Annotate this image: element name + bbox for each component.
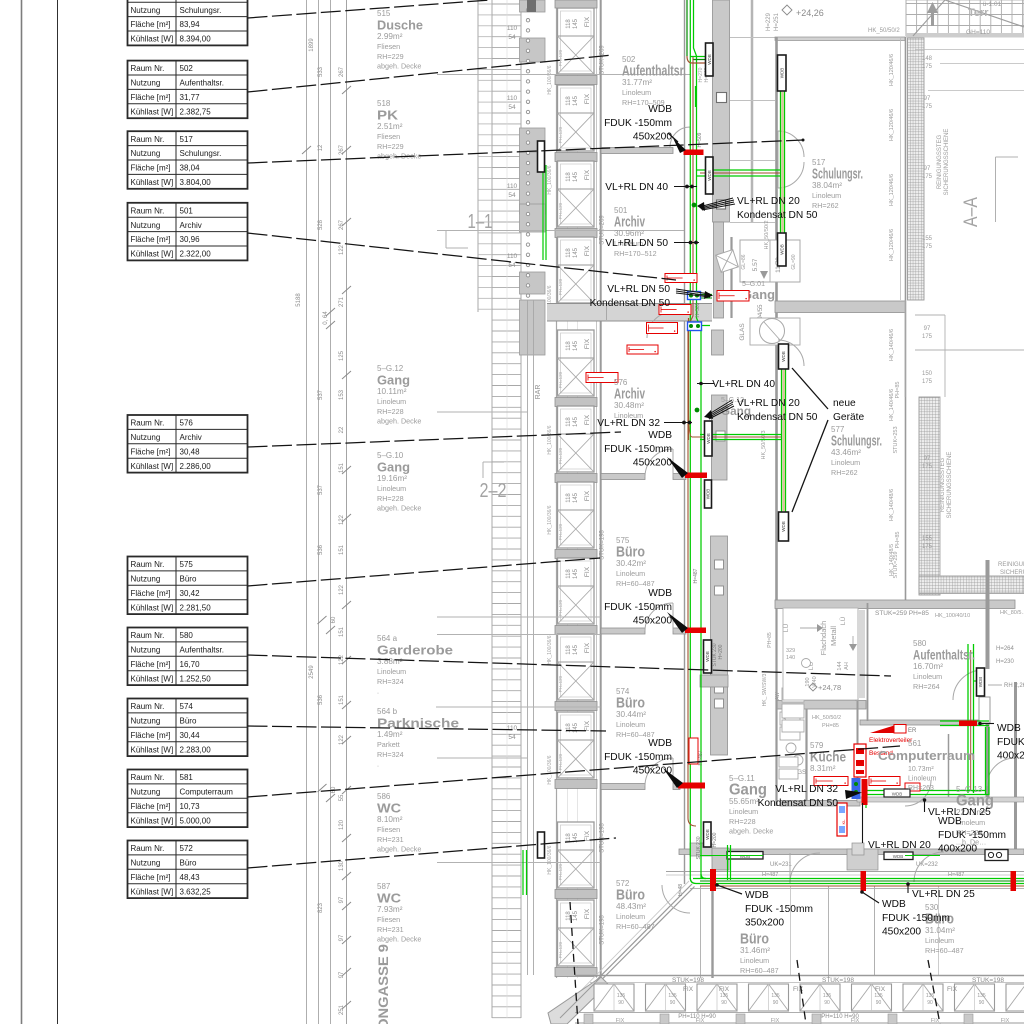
cross-hatched cleaning walkway bands (908, 38, 1024, 595)
table room 574 (128, 699, 248, 757)
svg-text:536: 536 (318, 694, 324, 705)
svg-text:90: 90 (824, 1000, 830, 1006)
annotation 50mm fragment (0, 0, 1, 1)
svg-text:PH=120: PH=120 (558, 523, 563, 540)
svg-text:FIX: FIX (584, 642, 591, 653)
svg-text:H=487: H=487 (698, 750, 704, 765)
table room 517 (128, 131, 248, 189)
svg-text:153: 153 (339, 389, 345, 400)
svg-text:144: 144 (837, 661, 843, 670)
svg-text:43.46m²: 43.46m² (831, 448, 861, 457)
fat arrow to damper 502 (0, 0, 1, 1)
svg-text:90: 90 (670, 1000, 676, 1006)
green pipe bottom corridor run (690, 874, 1024, 886)
svg-text:FIX: FIX (584, 16, 591, 27)
svg-text:Linoleum: Linoleum (616, 569, 645, 578)
svg-text:RH=228: RH=228 (729, 817, 756, 826)
svg-text:WDB: WDB (938, 816, 962, 827)
svg-text:561: 561 (908, 739, 922, 748)
svg-text:HK_100/36/6: HK_100/36/6 (547, 845, 553, 874)
svg-text:145: 145 (573, 492, 579, 503)
svg-text:RH=60–487: RH=60–487 (925, 946, 964, 955)
wall line x828 bottom rooms (828, 886, 830, 978)
dimension extension lines (436, 75, 690, 863)
green pipe main corridor riser (687, 0, 713, 879)
svg-text:HK_100/36/6: HK_100/36/6 (547, 65, 553, 94)
section marker 1-1 (437, 211, 493, 248)
radiator box 517 top (778, 55, 787, 91)
room label Buero 3146 (740, 932, 779, 975)
room 517 left wall (775, 37, 778, 301)
svg-text:97: 97 (339, 896, 345, 903)
svg-text:RH=324: RH=324 (377, 677, 404, 686)
svg-text:175: 175 (922, 544, 933, 550)
svg-text:Kühllast [W]: Kühllast [W] (131, 816, 174, 825)
svg-text:FIX: FIX (584, 93, 591, 104)
svg-text:WDB: WDB (740, 854, 751, 859)
svg-text:VL+RL DN 20: VL+RL DN 20 (868, 840, 931, 851)
room label 581 Computerraum (878, 739, 975, 792)
svg-text:RH=262: RH=262 (831, 468, 858, 477)
room label 530 Buero (925, 903, 964, 955)
annotation VL+RL DN 25 bottom (906, 882, 975, 900)
svg-text:PH=120: PH=120 (558, 675, 563, 692)
label HK_50/50/3 rotated low (761, 430, 767, 459)
svg-text:31.77m²: 31.77m² (622, 78, 652, 87)
table room 576 (128, 415, 248, 473)
FDUK box in corridor mid (884, 852, 913, 860)
svg-text:FDUK -150mm: FDUK -150mm (604, 118, 672, 129)
svg-text:3.632,25: 3.632,25 (180, 887, 212, 896)
label STUK=259 PH=85 below wall (875, 610, 1024, 619)
right outer wall line (905, 37, 907, 601)
svg-text:H=229: H=229 (766, 12, 772, 31)
svg-text:FIX: FIX (584, 338, 591, 349)
annotation VL+RL DN 20 computer (863, 803, 932, 851)
svg-text:5.57: 5.57 (752, 258, 759, 271)
room label 575 Buero (616, 536, 655, 588)
svg-text:Nutzung: Nutzung (131, 859, 161, 868)
svg-text:HK_100/36/6: HK_100/36/6 (547, 165, 553, 194)
wall below 577 (775, 600, 1015, 609)
svg-text:31.46m²: 31.46m² (740, 946, 770, 955)
svg-text:UK=231: UK=231 (770, 862, 793, 868)
svg-text:STUK 230: STUK 230 (696, 836, 702, 859)
red damper wall 574 (678, 783, 705, 789)
blue valve box junction 1 (688, 292, 701, 300)
svg-text:H=251: H=251 (774, 12, 780, 31)
green pipe branch to room 517 (697, 90, 785, 234)
svg-text:517: 517 (180, 135, 194, 144)
room label 580 Aufenthaltsr (913, 639, 975, 691)
svg-text:251: 251 (339, 1004, 345, 1015)
svg-text:AH: AH (844, 662, 850, 670)
svg-text:Linoleum: Linoleum (622, 88, 651, 97)
svg-text:WDB: WDB (882, 899, 906, 910)
dotted mullion strip with wall blocks (520, 0, 546, 975)
kitchen fixtures (762, 608, 866, 806)
annotation VL+RL DN 20 upper (697, 196, 818, 221)
svg-text:Linoleum: Linoleum (377, 667, 406, 676)
svg-text:Büro: Büro (180, 859, 197, 868)
svg-text:97: 97 (924, 96, 931, 102)
svg-text:54: 54 (508, 262, 516, 269)
leader line 517 (248, 139, 805, 164)
svg-text:Kühllast [W]: Kühllast [W] (131, 745, 174, 754)
svg-text:48.43m²: 48.43m² (616, 902, 646, 911)
svg-text:145: 145 (573, 416, 579, 427)
svg-text:VL+RL DN 50: VL+RL DN 50 (607, 284, 670, 295)
svg-text:WDB: WDB (648, 430, 672, 441)
svg-text:502: 502 (180, 64, 194, 73)
room label 5-G.12 shaft small (721, 397, 751, 418)
svg-text:125: 125 (339, 350, 345, 361)
room label 501 Archiv (614, 206, 657, 258)
leader line 502 (248, 55, 613, 92)
room label 515 Dusche (377, 9, 423, 71)
svg-text:90: 90 (876, 1000, 882, 1006)
svg-text:H=487: H=487 (693, 568, 699, 583)
room label 5-G.13 Gang (956, 785, 994, 847)
svg-text:RH=229: RH=229 (377, 52, 404, 61)
left margin gray rule (21, 0, 23, 1024)
svg-text:Nutzung: Nutzung (131, 788, 161, 797)
wall below corner to bottom band (711, 886, 713, 978)
HK and dim labels along right wall (889, 54, 933, 579)
room label 576 Archiv (614, 378, 645, 420)
wall between 517 and 577 (775, 301, 905, 313)
annotation VL+RL DN 40 upper (605, 182, 697, 193)
svg-text:GLAS: GLAS (739, 323, 746, 341)
svg-text:PH=85: PH=85 (822, 723, 839, 729)
svg-text:STUK=198: STUK=198 (972, 977, 1004, 984)
svg-text:22: 22 (339, 426, 345, 433)
red damper computer room vertical (862, 779, 868, 805)
svg-text:HK_100/36/6: HK_100/36/6 (547, 755, 553, 784)
STUK rotated labels on facade (600, 45, 606, 945)
svg-text:HK_ SW/SW/3: HK_ SW/SW/3 (762, 673, 768, 706)
corridor left wall line (684, 0, 686, 884)
annotation diffuser arrow 502 (668, 133, 686, 153)
svg-text:Archiv: Archiv (614, 387, 645, 403)
svg-text:Gang: Gang (377, 374, 410, 388)
svg-text:HK_50/50/2: HK_50/50/2 (764, 220, 770, 249)
svg-text:VL+RL DN 40: VL+RL DN 40 (712, 379, 775, 390)
svg-text:FDUK -150mm: FDUK -150mm (604, 752, 672, 763)
red valve box computer a (814, 777, 848, 786)
svg-text:564 b: 564 b (377, 707, 398, 716)
svg-text:GL=90: GL=90 (791, 254, 797, 269)
svg-text:5–G.12: 5–G.12 (377, 364, 404, 373)
wall under room 502 (601, 148, 673, 154)
svg-text:Kühllast [W]: Kühllast [W] (131, 674, 174, 683)
svg-text:55.65m²: 55.65m² (729, 797, 759, 806)
leader line 576 (248, 432, 622, 447)
svg-text:HK_140/48/6: HK_140/48/6 (889, 489, 895, 521)
svg-text:WDB: WDB (705, 829, 710, 840)
svg-text:Nutzung: Nutzung (131, 221, 161, 230)
svg-text:30,42: 30,42 (180, 589, 201, 598)
svg-text:HK_140/46/6: HK_140/46/6 (889, 329, 895, 361)
svg-text:2.99m²: 2.99m² (377, 32, 403, 41)
svg-text:Kühllast [W]: Kühllast [W] (131, 250, 174, 259)
svg-text:60: 60 (331, 616, 337, 623)
svg-text:HK_50/50/2: HK_50/50/2 (868, 28, 900, 34)
svg-text:175: 175 (922, 64, 933, 70)
svg-text:VL+RL DN 32: VL+RL DN 32 (597, 418, 660, 429)
svg-text:Linoleum: Linoleum (377, 397, 406, 406)
svg-text:FIX: FIX (1001, 1018, 1010, 1024)
green tee dots junction (692, 203, 700, 413)
svg-text:267: 267 (339, 219, 345, 230)
svg-text:H=509: H=509 (695, 302, 701, 317)
svg-text:175: 175 (922, 464, 933, 470)
green pipe computer room loop (863, 644, 989, 808)
svg-text:145: 145 (573, 340, 579, 351)
svg-text:.: . (377, 760, 379, 769)
svg-text:Kühllast [W]: Kühllast [W] (131, 107, 174, 116)
svg-text:FIX: FIX (719, 986, 730, 993)
svg-text:Nutzung: Nutzung (131, 433, 161, 442)
svg-text:PK: PK (377, 109, 398, 123)
svg-text:1899: 1899 (309, 38, 315, 52)
outer boundary right steps (905, 50, 1024, 594)
svg-text:Terr: Terr (968, 7, 989, 19)
svg-text:W40: W40 (812, 676, 818, 687)
svg-text:135: 135 (874, 993, 883, 999)
svg-text:536: 536 (318, 544, 324, 555)
svg-text:83,94: 83,94 (180, 20, 201, 29)
annotation WDB FDUK 450x200 room 502 (604, 104, 672, 143)
svg-text:WDB: WDB (892, 792, 903, 797)
svg-text:97: 97 (339, 971, 345, 978)
svg-text:151: 151 (339, 544, 345, 555)
corridor junction stair and WC cluster (716, 237, 800, 345)
svg-text:537: 537 (318, 484, 324, 495)
door arc room 502 (670, 127, 690, 147)
red damper computer top (959, 721, 977, 727)
svg-text:2.51m²: 2.51m² (377, 122, 403, 131)
svg-text:Aufenthaltsr.: Aufenthaltsr. (180, 79, 224, 88)
svg-text:Büro: Büro (616, 545, 645, 561)
ladder band dimension numbers (507, 25, 518, 741)
annotation VL+RL DN 32 (597, 418, 692, 429)
svg-text:2.283,00: 2.283,00 (180, 745, 212, 754)
green pipe stubs at corridor junction (688, 295, 712, 441)
room label 5-G.11 Gang (729, 774, 773, 836)
svg-text:Fläche [m²]: Fläche [m²] (131, 731, 171, 740)
svg-text:●: ● (693, 278, 695, 282)
svg-text:RH=264: RH=264 (913, 682, 940, 691)
right outer wall line 2 (900, 37, 902, 300)
svg-text:Fläche [m²]: Fläche [m²] (131, 93, 171, 102)
svg-text:148: 148 (922, 56, 933, 62)
svg-text:●: ● (654, 350, 656, 354)
svg-text:16,70: 16,70 (180, 660, 201, 669)
svg-text:8.31m²: 8.31m² (810, 764, 836, 773)
svg-text:120: 120 (339, 819, 345, 830)
svg-text:122: 122 (339, 734, 345, 745)
svg-text:576: 576 (180, 419, 194, 428)
svg-text:145: 145 (573, 910, 579, 921)
svg-text:5.000,00: 5.000,00 (180, 816, 212, 825)
svg-text:175: 175 (922, 334, 933, 340)
room label 518 PK (377, 99, 421, 161)
radiator box 517 bottom (778, 233, 787, 266)
computer room walls (857, 560, 1024, 851)
wall line x700 bottom rooms (700, 886, 702, 978)
red valve box junction c (647, 323, 678, 334)
svg-text:10.73m²: 10.73m² (908, 766, 934, 773)
svg-text:Kondensat DN 50: Kondensat DN 50 (758, 798, 839, 809)
table room 575 (128, 557, 248, 615)
svg-text:FIX: FIX (771, 1018, 780, 1024)
svg-text:H=487: H=487 (762, 872, 778, 878)
svg-text:VL+RL DN 20: VL+RL DN 20 (737, 398, 800, 409)
svg-text:90: 90 (927, 1000, 933, 1006)
svg-text:Fliesen: Fliesen (377, 825, 400, 834)
svg-text:LÜ: LÜ (839, 617, 847, 626)
svg-text:Aufenthaltsr.: Aufenthaltsr. (622, 64, 686, 80)
svg-text:580: 580 (180, 631, 194, 640)
svg-text:Computerraum: Computerraum (878, 749, 975, 763)
svg-text:STUK=259 PH=85: STUK=259 PH=85 (875, 610, 929, 617)
svg-text:abgeh. Decke: abgeh. Decke (377, 504, 421, 513)
svg-text:SICHERUNGSSCHIENE: SICHERUNGSSCHIENE (947, 452, 953, 519)
svg-text:Metall: Metall (829, 626, 838, 646)
label GLAS rotated mid (0, 0, 1, 1)
svg-text:90: 90 (618, 1000, 624, 1006)
svg-text:RH=229: RH=229 (377, 142, 404, 151)
svg-text:WDB: WDB (706, 433, 711, 444)
svg-text:WDB: WDB (781, 351, 786, 362)
svg-text:Fläche [m²]: Fläche [m²] (131, 873, 171, 882)
svg-text:118: 118 (566, 569, 572, 579)
svg-text:54: 54 (508, 104, 516, 111)
door arc room 575 (645, 603, 673, 631)
svg-text:Kühllast [W]: Kühllast [W] (131, 887, 174, 896)
door arc room 576 (645, 449, 673, 477)
svg-text:STUK=259: STUK=259 (893, 551, 899, 578)
svg-text:Raum Nr.: Raum Nr. (131, 64, 165, 73)
svg-text:H=200: H=200 (712, 832, 718, 847)
svg-text:WDB: WDB (648, 738, 672, 749)
svg-text:Nutzung: Nutzung (131, 575, 161, 584)
svg-text:Raum Nr.: Raum Nr. (131, 844, 165, 853)
svg-text:Linoleum: Linoleum (812, 191, 841, 200)
svg-text:WDB: WDB (779, 244, 784, 255)
diagonal outer wall bottom left (548, 881, 695, 1024)
door arc room 577 (778, 340, 804, 366)
green pipe branch to room 577 (689, 368, 786, 513)
svg-text:533: 533 (318, 66, 324, 77)
svg-text:30,96: 30,96 (180, 235, 201, 244)
svg-text:Schulungsr.: Schulungsr. (180, 6, 222, 15)
svg-text:586: 586 (377, 792, 391, 801)
svg-text:Garderobe: Garderobe (377, 644, 453, 658)
svg-text:145: 145 (573, 247, 579, 258)
svg-text:Kondensat DN 50: Kondensat DN 50 (737, 412, 818, 423)
svg-text:135: 135 (926, 993, 935, 999)
svg-text:H=509: H=509 (697, 132, 703, 147)
left margin black rule (57, 0, 59, 1024)
svg-text:WDB: WDB (707, 170, 712, 181)
svg-text:FDUK -150mm: FDUK -150mm (604, 444, 672, 455)
room label 579 Kueche (810, 741, 846, 773)
radiator box corridor 2 (706, 157, 714, 194)
annotation VL+RL DN 50 Kondensat (590, 284, 713, 309)
corridor labels near junction (0, 0, 1, 1)
svg-text:WC: WC (377, 892, 401, 906)
svg-text:118: 118 (566, 248, 572, 258)
svg-text:STUK=198: STUK=198 (822, 977, 854, 984)
rotated label H=487 low (698, 750, 704, 765)
svg-text:118: 118 (566, 341, 572, 351)
red tall box shaft (689, 738, 698, 764)
red tall box computer 2 (837, 803, 847, 836)
svg-text:135: 135 (823, 993, 832, 999)
svg-text:Kühllast [W]: Kühllast [W] (131, 462, 174, 471)
svg-text:abgeh. Decke: abgeh. Decke (377, 935, 421, 944)
svg-text:31.04m²: 31.04m² (925, 926, 955, 935)
red damper wall 502 (684, 150, 704, 156)
annotation VL+RL DN 20 mid (704, 398, 818, 423)
svg-text:WDB: WDB (978, 677, 983, 688)
svg-text:97: 97 (924, 456, 931, 462)
annotation WDB FDUK 450x200 bottom (860, 890, 950, 937)
svg-text:151: 151 (339, 694, 345, 705)
svg-text:PH=120: PH=120 (558, 278, 563, 295)
svg-text:400x2: 400x2 (997, 751, 1024, 762)
leader line 575 (248, 558, 601, 586)
table room 501 (128, 203, 248, 261)
svg-text:FIX: FIX (584, 169, 591, 180)
svg-text:HK_120/46/6: HK_120/46/6 (889, 109, 895, 141)
svg-text:Büro: Büro (180, 717, 197, 726)
svg-text:VL+RL DN 50: VL+RL DN 50 (605, 238, 668, 249)
svg-text:16.70m²: 16.70m² (913, 662, 943, 671)
svg-text:1.252,50: 1.252,50 (180, 674, 212, 683)
svg-text:VL+RL DN 32: VL+RL DN 32 (775, 784, 838, 795)
svg-text:135: 135 (771, 993, 780, 999)
svg-text:HK_100/36/6: HK_100/36/6 (547, 505, 553, 534)
annotation WDB FDUK 450x200 room 574 (604, 738, 672, 777)
flat roof metal vent area (782, 608, 865, 700)
svg-text:2549: 2549 (309, 665, 315, 679)
red valve box computer b (869, 777, 900, 786)
leader line 501 (248, 233, 677, 280)
leader line bottom steep 3 (928, 960, 940, 1024)
radiator box facade upper (538, 141, 545, 172)
svg-text:Büro: Büro (616, 696, 645, 712)
svg-text:PH=85: PH=85 (895, 532, 901, 549)
svg-text:Gang: Gang (377, 461, 410, 475)
svg-text:30.42m²: 30.42m² (616, 559, 646, 568)
svg-text:Aufenthaltsr.: Aufenthaltsr. (913, 647, 975, 663)
annotation VL+RL DN 50 a (605, 238, 699, 249)
svg-text:FIX: FIX (875, 986, 886, 993)
svg-text:3.804,00: 3.804,00 (180, 178, 212, 187)
svg-text:501: 501 (180, 206, 194, 215)
svg-text:Fläche [m²]: Fläche [m²] (131, 802, 171, 811)
svg-text:90: 90 (721, 1000, 727, 1006)
green pipe stubs at corridor boxes (700, 845, 940, 880)
svg-text:FDUK -150mm: FDUK -150mm (604, 602, 672, 613)
svg-text:AW: AW (775, 692, 781, 700)
red text Elektroverteiler (869, 737, 913, 757)
svg-text:●: ● (844, 781, 846, 785)
svg-text:.: . (377, 687, 379, 696)
